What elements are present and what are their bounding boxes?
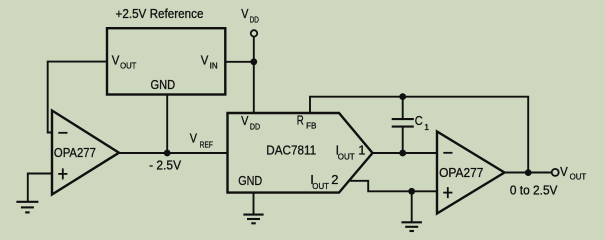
svg-text:C: C xyxy=(415,113,423,128)
svg-text:FB: FB xyxy=(306,121,317,131)
svg-text:V: V xyxy=(241,6,248,21)
svg-text:- 2.5V: - 2.5V xyxy=(149,158,181,173)
svg-text:V: V xyxy=(112,53,120,68)
svg-text:DD: DD xyxy=(250,122,260,132)
svg-text:GND: GND xyxy=(151,77,176,92)
svg-text:DAC7811: DAC7811 xyxy=(266,143,316,158)
svg-text:OUT: OUT xyxy=(338,151,355,161)
svg-text:DD: DD xyxy=(250,15,259,25)
svg-text:0 to 2.5V: 0 to 2.5V xyxy=(510,184,558,198)
svg-text:OUT: OUT xyxy=(312,181,329,191)
svg-text:OUT: OUT xyxy=(570,171,587,181)
svg-text:V: V xyxy=(201,52,209,67)
svg-text:R: R xyxy=(297,113,304,128)
svg-text:1: 1 xyxy=(358,143,365,158)
svg-text:GND: GND xyxy=(238,173,262,188)
svg-text:2: 2 xyxy=(331,172,338,187)
svg-text:V: V xyxy=(560,164,568,179)
svg-text:V: V xyxy=(190,130,198,145)
svg-text:V: V xyxy=(241,113,249,128)
svg-text:OPA277: OPA277 xyxy=(54,145,96,160)
svg-text:REF: REF xyxy=(200,139,213,149)
svg-text:OPA277: OPA277 xyxy=(439,165,483,180)
svg-text:1: 1 xyxy=(424,122,429,132)
svg-text:+2.5V Reference: +2.5V Reference xyxy=(116,6,204,21)
svg-text:IN: IN xyxy=(210,60,218,70)
svg-text:OUT: OUT xyxy=(120,61,137,71)
